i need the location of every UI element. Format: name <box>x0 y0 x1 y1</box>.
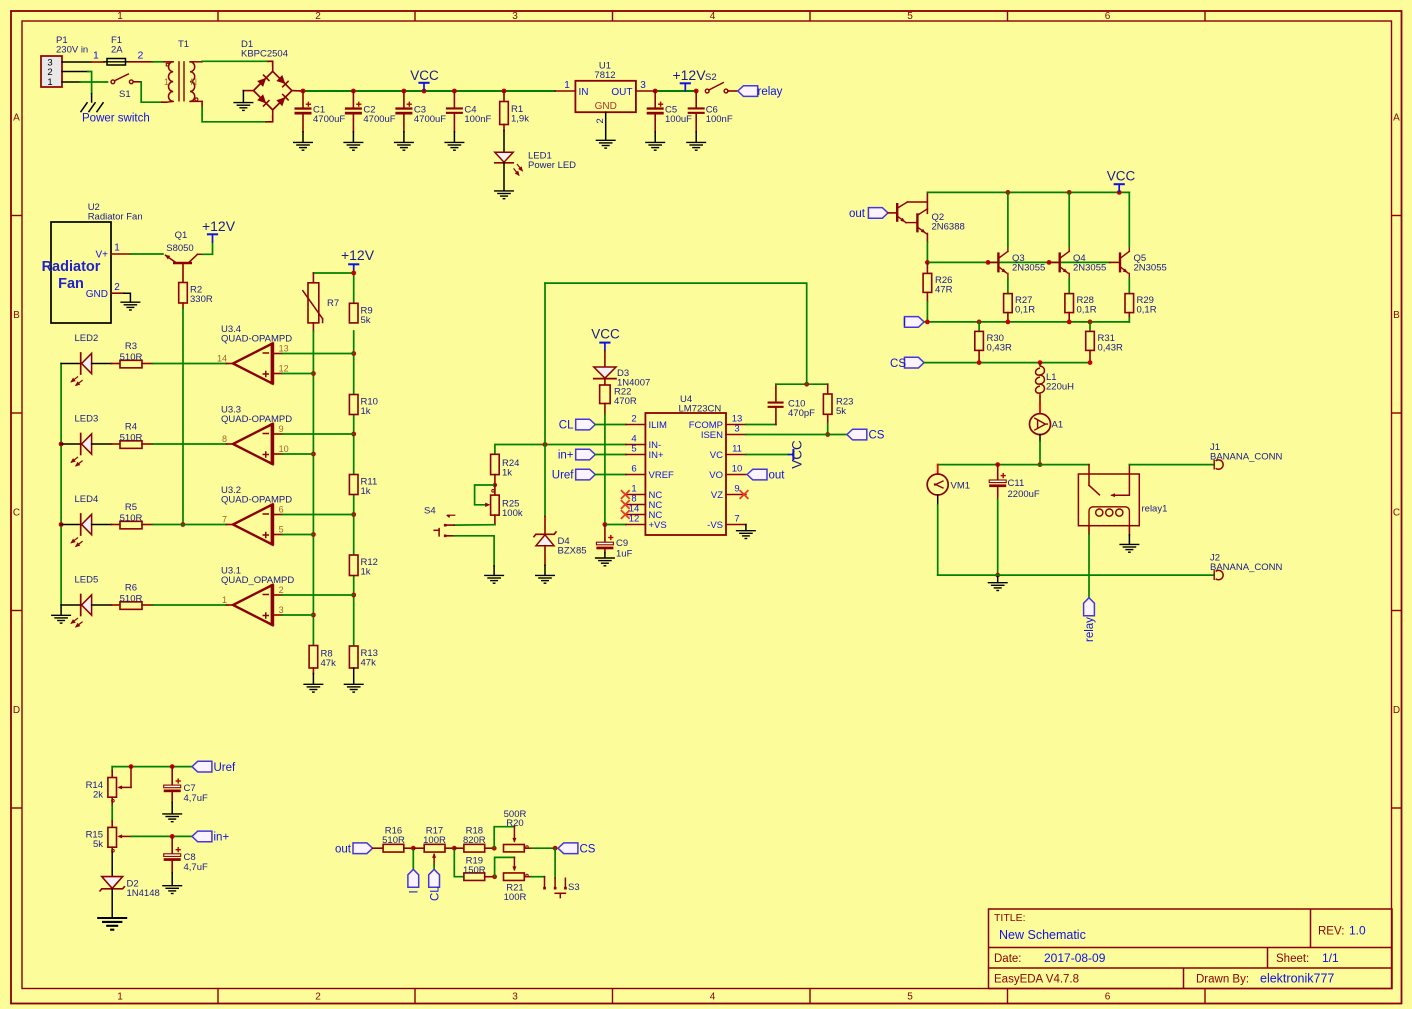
svg-text:6: 6 <box>1105 992 1111 1003</box>
svg-text:BANANA_CONN: BANANA_CONN <box>1210 562 1282 573</box>
svg-text:Uref: Uref <box>214 762 237 774</box>
svg-text:1N4148: 1N4148 <box>127 888 160 899</box>
ammeter A1 <box>1030 414 1051 435</box>
svg-text:relay: relay <box>1084 617 1096 642</box>
capacitor C5 <box>654 91 656 107</box>
svg-text:2N3055: 2N3055 <box>1073 262 1106 273</box>
svg-text:0,1R: 0,1R <box>1015 305 1035 316</box>
svg-text:47k: 47k <box>321 658 337 669</box>
resistor R2 <box>179 283 188 304</box>
svg-text:out: out <box>849 208 866 220</box>
wire U3.3 inverting input <box>272 433 282 435</box>
svg-text:in+: in+ <box>214 832 230 844</box>
resistor R9 <box>349 303 358 323</box>
resistor R16 <box>383 844 404 852</box>
wire VCC rail top right <box>927 191 1129 193</box>
svg-text:Radiator Fan: Radiator Fan <box>88 212 143 223</box>
svg-text:S4: S4 <box>424 506 436 517</box>
pin 3 ISEN <box>726 434 746 436</box>
svg-text:5: 5 <box>907 992 913 1003</box>
wire -VS to ground <box>745 525 747 531</box>
power flag +12V ladder <box>348 263 359 265</box>
potentiometer R25 <box>475 485 495 505</box>
potentiometer R15 <box>108 827 117 847</box>
wire ISEN to CS <box>746 434 847 436</box>
resistor R13 <box>349 646 358 668</box>
junction dots in+ column <box>311 371 316 376</box>
relay relay1 <box>1078 474 1139 526</box>
svg-text:-VS: -VS <box>707 520 723 531</box>
wire P1 pin1 to switch S1 <box>62 81 80 83</box>
wire VC to VCC <box>746 454 788 456</box>
svg-text:4700uF: 4700uF <box>313 114 345 125</box>
resistor R12 <box>349 555 358 576</box>
svg-text:S8050: S8050 <box>166 243 193 254</box>
svg-text:3: 3 <box>512 992 518 1003</box>
svg-text:R4: R4 <box>125 422 137 433</box>
resistor R19 <box>464 873 485 881</box>
svg-text:2017-08-09: 2017-08-09 <box>1044 951 1106 965</box>
svg-text:4,7uF: 4,7uF <box>184 862 208 873</box>
ground C7 <box>162 814 182 822</box>
ground bridge <box>233 103 253 111</box>
svg-text:470R: 470R <box>614 396 637 407</box>
svg-text:5: 5 <box>279 525 284 535</box>
svg-text:OUT: OUT <box>611 87 632 98</box>
svg-text:S3: S3 <box>568 882 580 893</box>
wire U1 GND to ground <box>605 112 607 140</box>
svg-text:VCC: VCC <box>1107 169 1136 184</box>
svg-text:6: 6 <box>631 464 636 475</box>
wire R1 to LED1 <box>503 131 505 153</box>
svg-text:+12V: +12V <box>202 218 236 234</box>
pin 9 no-connect X <box>740 490 749 499</box>
svg-text:Power LED: Power LED <box>528 160 576 171</box>
svg-text:B: B <box>1393 310 1400 321</box>
svg-text:2: 2 <box>595 118 606 123</box>
svg-text:7: 7 <box>734 514 739 525</box>
svg-text:2k: 2k <box>93 790 103 801</box>
svg-text:230V in: 230V in <box>56 45 88 56</box>
net flag I bottom <box>408 869 419 887</box>
svg-text:510R: 510R <box>120 433 143 444</box>
resistor R30 <box>978 322 980 332</box>
svg-text:11: 11 <box>732 444 742 455</box>
svg-text:47k: 47k <box>361 658 377 669</box>
svg-text:R6: R6 <box>125 583 137 594</box>
svg-text:47R: 47R <box>935 285 953 296</box>
wire R6 to opamp U3.1 output <box>153 604 227 606</box>
resistor R8 <box>309 646 318 669</box>
svg-text:CS: CS <box>890 358 906 370</box>
pin 1 NC <box>626 494 645 496</box>
wire CS junction to S3 <box>554 848 556 878</box>
wire R2 to U3.2 output <box>182 309 184 525</box>
power flag VCC rotated <box>788 454 794 456</box>
svg-text:100R: 100R <box>504 892 527 903</box>
svg-text:1: 1 <box>564 80 570 91</box>
svg-text:Power switch: Power switch <box>82 113 150 125</box>
svg-text:2: 2 <box>138 50 144 62</box>
zener D4 <box>544 516 546 534</box>
svg-text:8: 8 <box>222 434 227 444</box>
svg-text:2200uF: 2200uF <box>1008 489 1040 500</box>
svg-text:1: 1 <box>117 992 123 1003</box>
svg-text:Q1: Q1 <box>175 230 188 241</box>
svg-text:1k: 1k <box>361 486 371 497</box>
wire FCOMP to C10 <box>746 424 776 426</box>
wire C11 ground stub <box>997 575 999 582</box>
fan unit U2 <box>51 222 111 323</box>
svg-text:5: 5 <box>907 11 913 22</box>
wire bottom rail to J2 <box>938 574 1214 576</box>
svg-text:1.0: 1.0 <box>1349 924 1366 938</box>
power flag VCC <box>418 82 429 84</box>
resistor R3 <box>120 360 142 368</box>
svg-text:D: D <box>13 705 20 716</box>
svg-text:7812: 7812 <box>594 70 615 81</box>
ground R13 <box>353 668 355 684</box>
svg-text:R5: R5 <box>125 502 137 513</box>
pin 9 VZ <box>726 494 746 496</box>
ground relay <box>1119 544 1139 552</box>
wire bridge plus to VCC rail <box>292 90 303 92</box>
capacitor C2 <box>352 91 354 107</box>
svg-text:New Schematic: New Schematic <box>999 928 1086 942</box>
svg-text:150R: 150R <box>463 865 486 876</box>
wire relay coil to ground <box>1128 526 1130 535</box>
svg-text:1: 1 <box>164 77 169 87</box>
svg-text:4700uF: 4700uF <box>414 114 446 125</box>
capacitor C6 <box>695 91 697 107</box>
svg-text:Radiator: Radiator <box>42 259 101 275</box>
net flag CL <box>576 419 596 430</box>
svg-text:Drawn By:: Drawn By: <box>1196 974 1249 986</box>
svg-text:510R: 510R <box>120 513 143 524</box>
svg-text:1k: 1k <box>361 406 371 417</box>
resistor R10 <box>349 395 358 415</box>
svg-text:in+: in+ <box>558 450 574 462</box>
capacitor C8 <box>171 836 173 853</box>
wire T1 secondary top to bridge <box>202 60 268 62</box>
svg-text:100k: 100k <box>502 508 523 519</box>
connector J1 banana <box>1216 460 1224 469</box>
svg-text:REV:: REV: <box>1318 926 1344 938</box>
wire D2 to ground <box>111 889 113 918</box>
pin 8 NC <box>626 504 645 506</box>
capacitor C4 <box>453 91 455 107</box>
svg-text:VCC: VCC <box>790 440 805 469</box>
pin 11 VC <box>726 454 746 456</box>
svg-text:1,9k: 1,9k <box>511 114 529 125</box>
svg-text:S2: S2 <box>705 72 717 83</box>
wire A1 to output rail <box>1039 435 1041 442</box>
wire out to Q2 base <box>888 212 897 214</box>
pin 7 -VS <box>726 524 746 526</box>
diode D3 <box>594 367 616 378</box>
svg-text:LED2: LED2 <box>75 333 99 344</box>
wire relay to J1 <box>1129 464 1214 466</box>
wire R4 to opamp U3.3 output <box>153 443 227 445</box>
svg-text:9: 9 <box>279 424 284 434</box>
svg-text:10: 10 <box>279 444 289 454</box>
pin 5 IN+ <box>626 454 645 456</box>
fuse F1 <box>107 59 126 66</box>
pin 2 ILIM <box>626 424 645 426</box>
thermistor R7 <box>312 273 314 283</box>
regulator U1 <box>575 81 636 112</box>
wire U2 V+ to Q1 <box>111 253 130 255</box>
capacitor C7 <box>171 767 173 785</box>
svg-text:C: C <box>13 508 20 519</box>
svg-text:B: B <box>13 310 20 321</box>
svg-text:GND: GND <box>595 101 617 112</box>
LED LED4 <box>61 524 81 526</box>
wire U3.3 non-inverting input <box>272 453 282 455</box>
wire VCC rail <box>303 90 555 92</box>
svg-text:VM1: VM1 <box>951 481 971 492</box>
svg-text:4: 4 <box>710 11 716 22</box>
svg-text:BANANA_CONN: BANANA_CONN <box>1210 452 1282 463</box>
ground C1 <box>293 142 313 150</box>
svg-text:2: 2 <box>315 992 321 1003</box>
svg-text:Uref: Uref <box>552 470 575 482</box>
wire junction to R19 row <box>454 848 464 877</box>
wire Q5 collector <box>1128 192 1130 246</box>
svg-text:T1: T1 <box>178 39 189 50</box>
svg-text:VREF: VREF <box>649 470 675 481</box>
svg-text:1: 1 <box>114 243 120 254</box>
wire LED anode column <box>60 364 62 606</box>
svg-text:100R: 100R <box>423 835 446 846</box>
resistor R18 <box>454 847 464 849</box>
earth ground <box>81 102 104 112</box>
ground C5 <box>645 142 665 150</box>
svg-text:2: 2 <box>631 414 636 425</box>
wire U3.4 inverting input <box>272 353 282 355</box>
capacitor C10 <box>775 408 777 425</box>
svg-text:5k: 5k <box>836 406 846 417</box>
wire output rail <box>938 464 1089 466</box>
inductor L1 <box>1036 363 1045 397</box>
svg-text:out: out <box>769 470 786 482</box>
ground U1 <box>596 140 616 148</box>
wire LED3 to R4 <box>92 443 112 445</box>
ground C8 <box>162 886 182 894</box>
svg-text:1: 1 <box>47 77 52 88</box>
wire junction to I flag <box>412 848 414 869</box>
svg-text:470pF: 470pF <box>788 408 815 419</box>
svg-text:510R: 510R <box>120 352 143 363</box>
svg-text:5k: 5k <box>361 315 371 326</box>
svg-text:BZX85: BZX85 <box>558 546 587 557</box>
svg-text:12: 12 <box>629 514 640 525</box>
wire U3.4 non-inverting input <box>272 373 282 375</box>
net flag Uref source <box>192 761 212 772</box>
wire S4 to ground <box>446 535 454 537</box>
wire in+ net <box>131 835 192 837</box>
pin 10 VO <box>726 474 746 476</box>
wire Uref net <box>112 766 192 768</box>
resistor R23 <box>827 384 829 394</box>
svg-text:7: 7 <box>222 515 227 525</box>
wire C10 top node <box>776 383 828 385</box>
svg-text:+12V: +12V <box>341 247 375 263</box>
wire LED2 to R3 <box>92 363 112 365</box>
ground C4 <box>444 142 464 150</box>
svg-text:KBPC2504: KBPC2504 <box>241 49 288 60</box>
wire Uref to VREF <box>595 474 626 476</box>
svg-text:LED3: LED3 <box>75 414 99 425</box>
wire R15 to D2 <box>111 847 113 852</box>
wire +VS net <box>605 524 626 526</box>
svg-text:1: 1 <box>93 50 99 62</box>
LED LED1 <box>495 152 513 162</box>
wire CL to ILIM <box>595 424 626 426</box>
svg-text:I: I <box>409 890 421 893</box>
wire U3.1 non-inverting input <box>272 614 282 616</box>
svg-text:1/1: 1/1 <box>1322 951 1339 965</box>
ground C9 <box>595 558 615 566</box>
wire in+ to IN+ <box>595 454 626 456</box>
wire LED4 to R5 <box>92 524 112 526</box>
svg-text:N: N <box>191 77 198 87</box>
LED LED3 <box>61 443 81 445</box>
svg-text:1: 1 <box>222 595 227 605</box>
svg-text:2: 2 <box>315 11 321 22</box>
svg-text:5: 5 <box>631 444 636 455</box>
ground -VS <box>736 531 756 539</box>
LED LED2 <box>61 363 81 365</box>
wire relay coil to flag <box>1088 526 1090 535</box>
svg-text:1: 1 <box>117 11 123 22</box>
connector P1 <box>41 56 62 87</box>
svg-text:CL: CL <box>559 420 574 432</box>
resistor R11 <box>349 475 358 495</box>
wire R3 to opamp U3.4 output <box>153 363 227 365</box>
svg-text:VZ: VZ <box>711 490 723 501</box>
svg-text:3: 3 <box>512 11 518 22</box>
ground D2 <box>97 918 127 930</box>
svg-text:0,1R: 0,1R <box>1137 305 1157 316</box>
svg-text:13: 13 <box>279 344 289 354</box>
wire U1 IN <box>555 90 575 92</box>
ground C11 <box>988 583 1008 591</box>
svg-text:0,43R: 0,43R <box>1098 343 1123 354</box>
svg-text:CL: CL <box>429 886 441 901</box>
resistor R29 <box>1128 278 1130 293</box>
svg-text:ILIM: ILIM <box>649 420 668 431</box>
wire VM1 to bottom rail <box>937 495 939 505</box>
wire out to R16 <box>373 847 384 849</box>
ground LED column <box>51 615 71 623</box>
ground C6 <box>686 142 706 150</box>
wire R9 ladder column <box>353 331 355 646</box>
wire CS rail <box>924 362 1090 364</box>
svg-text:100nF: 100nF <box>464 114 491 125</box>
net flag Uref <box>576 469 596 480</box>
svg-text:4700uF: 4700uF <box>363 114 395 125</box>
svg-text:3: 3 <box>734 424 739 435</box>
ground S4 <box>484 575 504 583</box>
svg-text:4: 4 <box>710 992 716 1003</box>
svg-text:elektronik777: elektronik777 <box>1260 972 1334 986</box>
svg-text:2N3055: 2N3055 <box>1134 262 1167 273</box>
resistor R26 <box>926 262 928 273</box>
resistor R4 <box>120 441 142 449</box>
svg-text:TITLE:: TITLE: <box>994 912 1026 924</box>
wire U1 OUT <box>636 90 655 92</box>
wire U3.2 non-inverting input <box>272 534 282 536</box>
switch S1 <box>111 80 115 84</box>
ground D4 <box>535 575 555 583</box>
svg-text:ISEN: ISEN <box>701 430 723 441</box>
wire P1 pin2 to earth <box>62 71 88 73</box>
wire R21 to S3 <box>531 876 545 878</box>
svg-text:A: A <box>13 113 20 124</box>
wire R22 to +VS <box>604 415 606 525</box>
net flag CS left <box>905 357 925 368</box>
svg-text:R3: R3 <box>125 341 137 352</box>
svg-text:Fan: Fan <box>58 276 84 292</box>
svg-text:relay: relay <box>758 86 783 98</box>
svg-text:EasyEDA V4.7.8: EasyEDA V4.7.8 <box>994 974 1079 986</box>
svg-text:10: 10 <box>732 464 743 475</box>
junction dots ladder column <box>351 351 356 356</box>
svg-text:3: 3 <box>640 80 646 91</box>
resistor R24 <box>494 453 496 455</box>
svg-text:3: 3 <box>279 605 284 615</box>
svg-text:0,43R: 0,43R <box>987 343 1012 354</box>
svg-text:510R: 510R <box>382 835 405 846</box>
svg-text:9: 9 <box>734 484 739 495</box>
svg-text:2N6388: 2N6388 <box>932 222 965 233</box>
svg-text:C: C <box>1393 508 1400 519</box>
wire R25 to S4 <box>454 524 495 526</box>
svg-text:IN+: IN+ <box>649 450 665 461</box>
svg-text:5k: 5k <box>93 839 103 850</box>
connector J2 banana <box>1216 570 1224 579</box>
wire U3.1 inverting input <box>272 594 282 596</box>
resistor R28 <box>1068 278 1070 293</box>
svg-text:220uH: 220uH <box>1046 382 1074 393</box>
wire bridge minus to ground <box>243 90 253 92</box>
potentiometer R17 <box>413 847 424 849</box>
wire Q1 collector to +12V <box>203 242 213 254</box>
wire Q4 collector <box>1068 192 1070 246</box>
wire Q2 emitter to base rail <box>926 242 928 262</box>
capacitor C3 <box>403 91 405 107</box>
power flag VCC right <box>1114 183 1125 185</box>
junction dots VCC rail <box>301 89 306 94</box>
IC U4 LM723CN <box>645 413 726 535</box>
wire top feedback net <box>545 283 807 384</box>
svg-text:V+: V+ <box>95 250 108 261</box>
svg-text:330R: 330R <box>190 294 213 305</box>
wire +12V to R7 and R9 <box>313 273 353 303</box>
net flag out to Q2 <box>868 208 888 219</box>
net flag relay bottom <box>1084 598 1095 616</box>
svg-text:510R: 510R <box>120 594 143 605</box>
svg-text:6: 6 <box>1105 11 1111 22</box>
wire T1 secondary bottom to bridge <box>201 101 203 107</box>
svg-text:CS: CS <box>580 843 596 855</box>
svg-text:C9: C9 <box>616 538 628 549</box>
wire P1 pin3 to fuse <box>62 61 91 63</box>
svg-text:12: 12 <box>279 364 289 374</box>
svg-text:820R: 820R <box>463 835 486 846</box>
svg-text:Date:: Date: <box>994 953 1022 965</box>
